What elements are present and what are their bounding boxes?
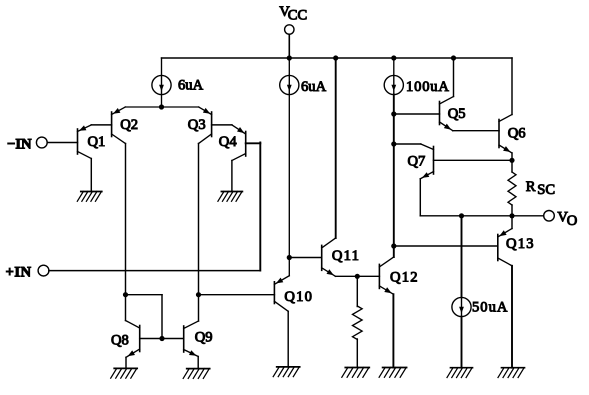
wire VCC stub [288,34,290,58]
svg-text:Q1: Q1 [88,134,106,150]
ground (Q8 emitter) [111,368,138,378]
svg-text:R: R [526,179,536,195]
wire Q1 emitter to Q2 base [91,124,111,126]
wire Q5 collector up to rail [453,58,455,97]
transistor Q13 [498,229,512,266]
node output/RSC junction [509,213,514,218]
wire Q4 base down to +IN [259,142,261,270]
current source I3 100uA [384,75,403,94]
transistor Q1 [78,125,92,159]
wire Q5 emitter to Q6 base [453,130,499,132]
svg-text:Q10: Q10 [284,289,313,305]
terminal +IN [38,265,49,276]
node Q7 collector junction [391,141,396,146]
wire Q10 collector drop [287,311,289,367]
transistor Q9 [184,321,199,357]
wire 50uA column top [461,216,463,298]
svg-text:−IN: −IN [7,137,32,153]
wire rail to middle 6uA [288,58,290,75]
wire Q6 emitter stub [511,153,513,160]
wire Q11 emitter to Q12 base [336,275,380,277]
wire Q8-Q9 bases [140,338,184,340]
transistor Q3 [199,107,212,144]
transistor Q4 [232,125,246,161]
svg-text:6uA: 6uA [178,78,204,94]
resistor RSC [508,160,516,216]
wire rail to 100uA [393,58,395,75]
node rail junction at VCC [287,55,292,60]
wire Q13 base [394,245,498,247]
node tail junction [159,104,164,109]
svg-text:Q5: Q5 [448,106,466,122]
wire mirror link vertical [161,295,163,339]
transistor Q2 [112,107,126,144]
transistor Q7 [420,144,433,179]
wire Q8 emitter stub [125,357,127,368]
wire Q7 collector [394,143,421,145]
transistor Q12 [379,257,393,294]
node VCC rail junction (left 6uA drop) [161,58,163,75]
svg-text:50uA: 50uA [472,300,508,316]
wire Q1 collector drop [90,159,92,192]
ground (Q10 collector) [273,367,300,377]
transistor Q11 [322,238,336,276]
ground (50uA source) [447,368,473,378]
wire Q13 emitter stub [511,216,513,229]
transistor Q6 [499,115,512,154]
transistor Q8 [126,321,140,358]
terminal -IN [36,137,47,148]
wire VCC rail [162,57,513,59]
ground (Q4 collector) [218,192,243,202]
wire Q4 collector drop [231,161,233,192]
node Q6 emitter / Q7 base junction [509,158,514,163]
wire Q3 collector down to Q9 [198,144,200,322]
wire Q5 base [394,113,440,115]
terminal VO [544,211,555,222]
ground (R1) [342,368,370,378]
current source I1 6uA (left) [152,75,171,94]
svg-text:+IN: +IN [6,264,32,280]
node rail junction Q11 [333,55,338,60]
wire 6uA to tail [161,95,163,107]
wire Q12 emitter drop [392,294,394,367]
wire Q2 collector down to Q8 [125,144,127,321]
wire 50uA column bottom [461,317,463,368]
svg-text:Q9: Q9 [195,330,213,346]
wire Q13 collector drop [511,266,513,368]
wire Q11 collector up to rail [335,58,337,238]
current source I4 50uA [452,297,471,316]
node A junction [287,255,292,260]
svg-text:Q11: Q11 [332,248,360,264]
current source I2 6uA (middle) [280,75,299,94]
wire +IN to Q4 base [49,270,260,272]
wire Q4 emitter to Q3 base [212,124,232,126]
svg-text:Q4: Q4 [219,134,238,150]
svg-text:Q7: Q7 [408,154,426,170]
wire Q7 emitter drop [419,179,421,216]
wire Q9 emitter stub [197,357,199,369]
svg-text:Q6: Q6 [508,126,526,142]
transistor Q10 [274,276,289,312]
node output/50uA junction [459,213,464,218]
wire Q11 base [289,257,321,259]
wire Q4 base stub [246,142,261,144]
node mirror base junction [159,336,164,341]
node Q9 collector junction [196,292,201,297]
node 100uA/Q5 base junction [391,111,396,116]
svg-text:Q2: Q2 [120,117,138,133]
wire input-pair tail [125,106,198,108]
resistor R1 [353,276,363,367]
svg-text:100uA: 100uA [406,79,450,95]
wire middle 6uA down to node A [288,95,290,276]
wire output net [420,215,543,217]
wire Q7 base [434,159,513,161]
svg-text:O: O [567,213,578,229]
wire mirror link horizontal [126,294,163,296]
svg-text:Q12: Q12 [390,270,419,286]
wire -IN to Q1 base [47,142,77,144]
node Q13 base junction [391,243,396,248]
terminal VCC [285,25,294,34]
node emitter resistor junction [355,274,360,279]
svg-text:6uA: 6uA [301,79,327,95]
node rail junction Q5 [451,55,456,60]
node rail junction 100uA [391,55,396,60]
wire 100uA node column [393,95,395,257]
ground (Q9 emitter) [183,369,210,379]
svg-text:Q13: Q13 [506,236,535,252]
transistor Q5 [440,97,454,131]
wire Q6 collector up to rail corner [511,58,513,115]
ground (Q1 collector) [77,192,102,202]
ground (Q12 emitter) [379,368,407,378]
svg-text:Q3: Q3 [188,117,206,133]
wire Q10 base from mirror [199,294,275,296]
node Q8 collector junction [123,292,128,297]
svg-text:CC: CC [288,7,307,23]
svg-text:SC: SC [537,182,555,198]
svg-text:Q8: Q8 [111,333,129,349]
ground (Q13 collector) [498,368,525,378]
